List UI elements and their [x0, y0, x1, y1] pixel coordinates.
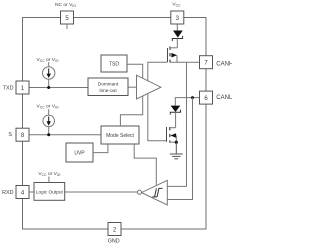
- pin 5: [61, 11, 74, 29]
- svg-text:VCC or VIO: VCC or VIO: [36, 104, 58, 110]
- wire CANL to receiver: [167, 98, 192, 200]
- svg-text:NC or VIO: NC or VIO: [55, 2, 76, 8]
- wire D2 to Q2 drain: [175, 112, 177, 128]
- wire VCC to diode D1: [176, 24, 178, 31]
- svg-text:CANH: CANH: [216, 61, 232, 67]
- op-amp driver: [137, 75, 161, 99]
- current source I2: [43, 109, 55, 135]
- current source I1: [43, 62, 55, 88]
- wire TSD to mode select: [127, 64, 143, 78]
- pin 7: [200, 56, 213, 69]
- mode select block: [101, 126, 139, 144]
- current source I2 arrow: [47, 117, 51, 126]
- transistor Q2 body arrow: [170, 133, 176, 138]
- svg-text:RXD: RXD: [2, 190, 13, 196]
- pin 1: [16, 81, 29, 94]
- wire CANH to receiver: [167, 62, 186, 186]
- dominant time-out block: [88, 78, 128, 96]
- svg-text:TSD: TSD: [109, 62, 119, 68]
- wire D1 to Q1 source: [176, 39, 178, 48]
- logic output block: [34, 183, 65, 201]
- wire VCC stub to logic output: [48, 177, 50, 183]
- svg-text:VCC or VIO: VCC or VIO: [38, 171, 60, 177]
- ground: [170, 142, 183, 159]
- transistor Q1 (PMOS high side): [168, 47, 178, 63]
- svg-text:VCC or VIO: VCC or VIO: [36, 57, 58, 63]
- diode D1 (zener): [172, 31, 182, 42]
- pin 4: [16, 186, 29, 199]
- wire driver input: [128, 86, 137, 88]
- transistor Q2 (NMOS low side): [167, 127, 177, 143]
- TSD block: [101, 55, 127, 72]
- wire UVP to mode select: [93, 144, 108, 153]
- pin 2: [108, 223, 121, 236]
- svg-text:VCC: VCC: [172, 2, 181, 8]
- transistor Q1 body arrow: [171, 53, 177, 58]
- svg-text:Dominant: Dominant: [98, 82, 119, 88]
- wire CANH rail: [170, 61, 200, 63]
- outer border: [23, 18, 207, 230]
- receiver hysteresis glyph: [152, 188, 162, 197]
- pin 3: [171, 11, 184, 24]
- node junction I2/S: [47, 133, 50, 136]
- wire NC stub: [66, 24, 68, 29]
- node junction Q2 source: [175, 141, 178, 144]
- wire S rail: [29, 134, 101, 136]
- svg-text:Logic Output: Logic Output: [36, 190, 64, 196]
- current source I1 arrow: [47, 69, 51, 79]
- wire logic-output to receiver bubble: [65, 191, 138, 193]
- svg-text:GND: GND: [108, 239, 120, 245]
- node junction I1/TXD: [47, 86, 50, 89]
- pin 8: [16, 128, 29, 141]
- svg-text:CANL: CANL: [216, 95, 232, 101]
- wire TXD rail: [29, 87, 88, 89]
- wire RXD rail: [29, 191, 35, 193]
- svg-text:S: S: [8, 132, 12, 138]
- svg-text:Mode Select: Mode Select: [106, 133, 134, 139]
- node junction CANL/receiver: [191, 96, 194, 99]
- svg-text:time-out: time-out: [99, 88, 117, 94]
- wire CANL rail: [175, 98, 199, 106]
- diode D2 (zener): [170, 106, 180, 115]
- wire driver to NMOS gate: [148, 94, 167, 141]
- wire driver to PMOS gate: [148, 62, 168, 81]
- receiver U2 (schmitt): [142, 180, 168, 205]
- UVP block: [66, 143, 93, 162]
- svg-text:UVP: UVP: [74, 151, 85, 157]
- pin 6: [200, 91, 213, 104]
- svg-text:TXD: TXD: [3, 86, 14, 92]
- wire mode select to receiver enable: [134, 144, 156, 186]
